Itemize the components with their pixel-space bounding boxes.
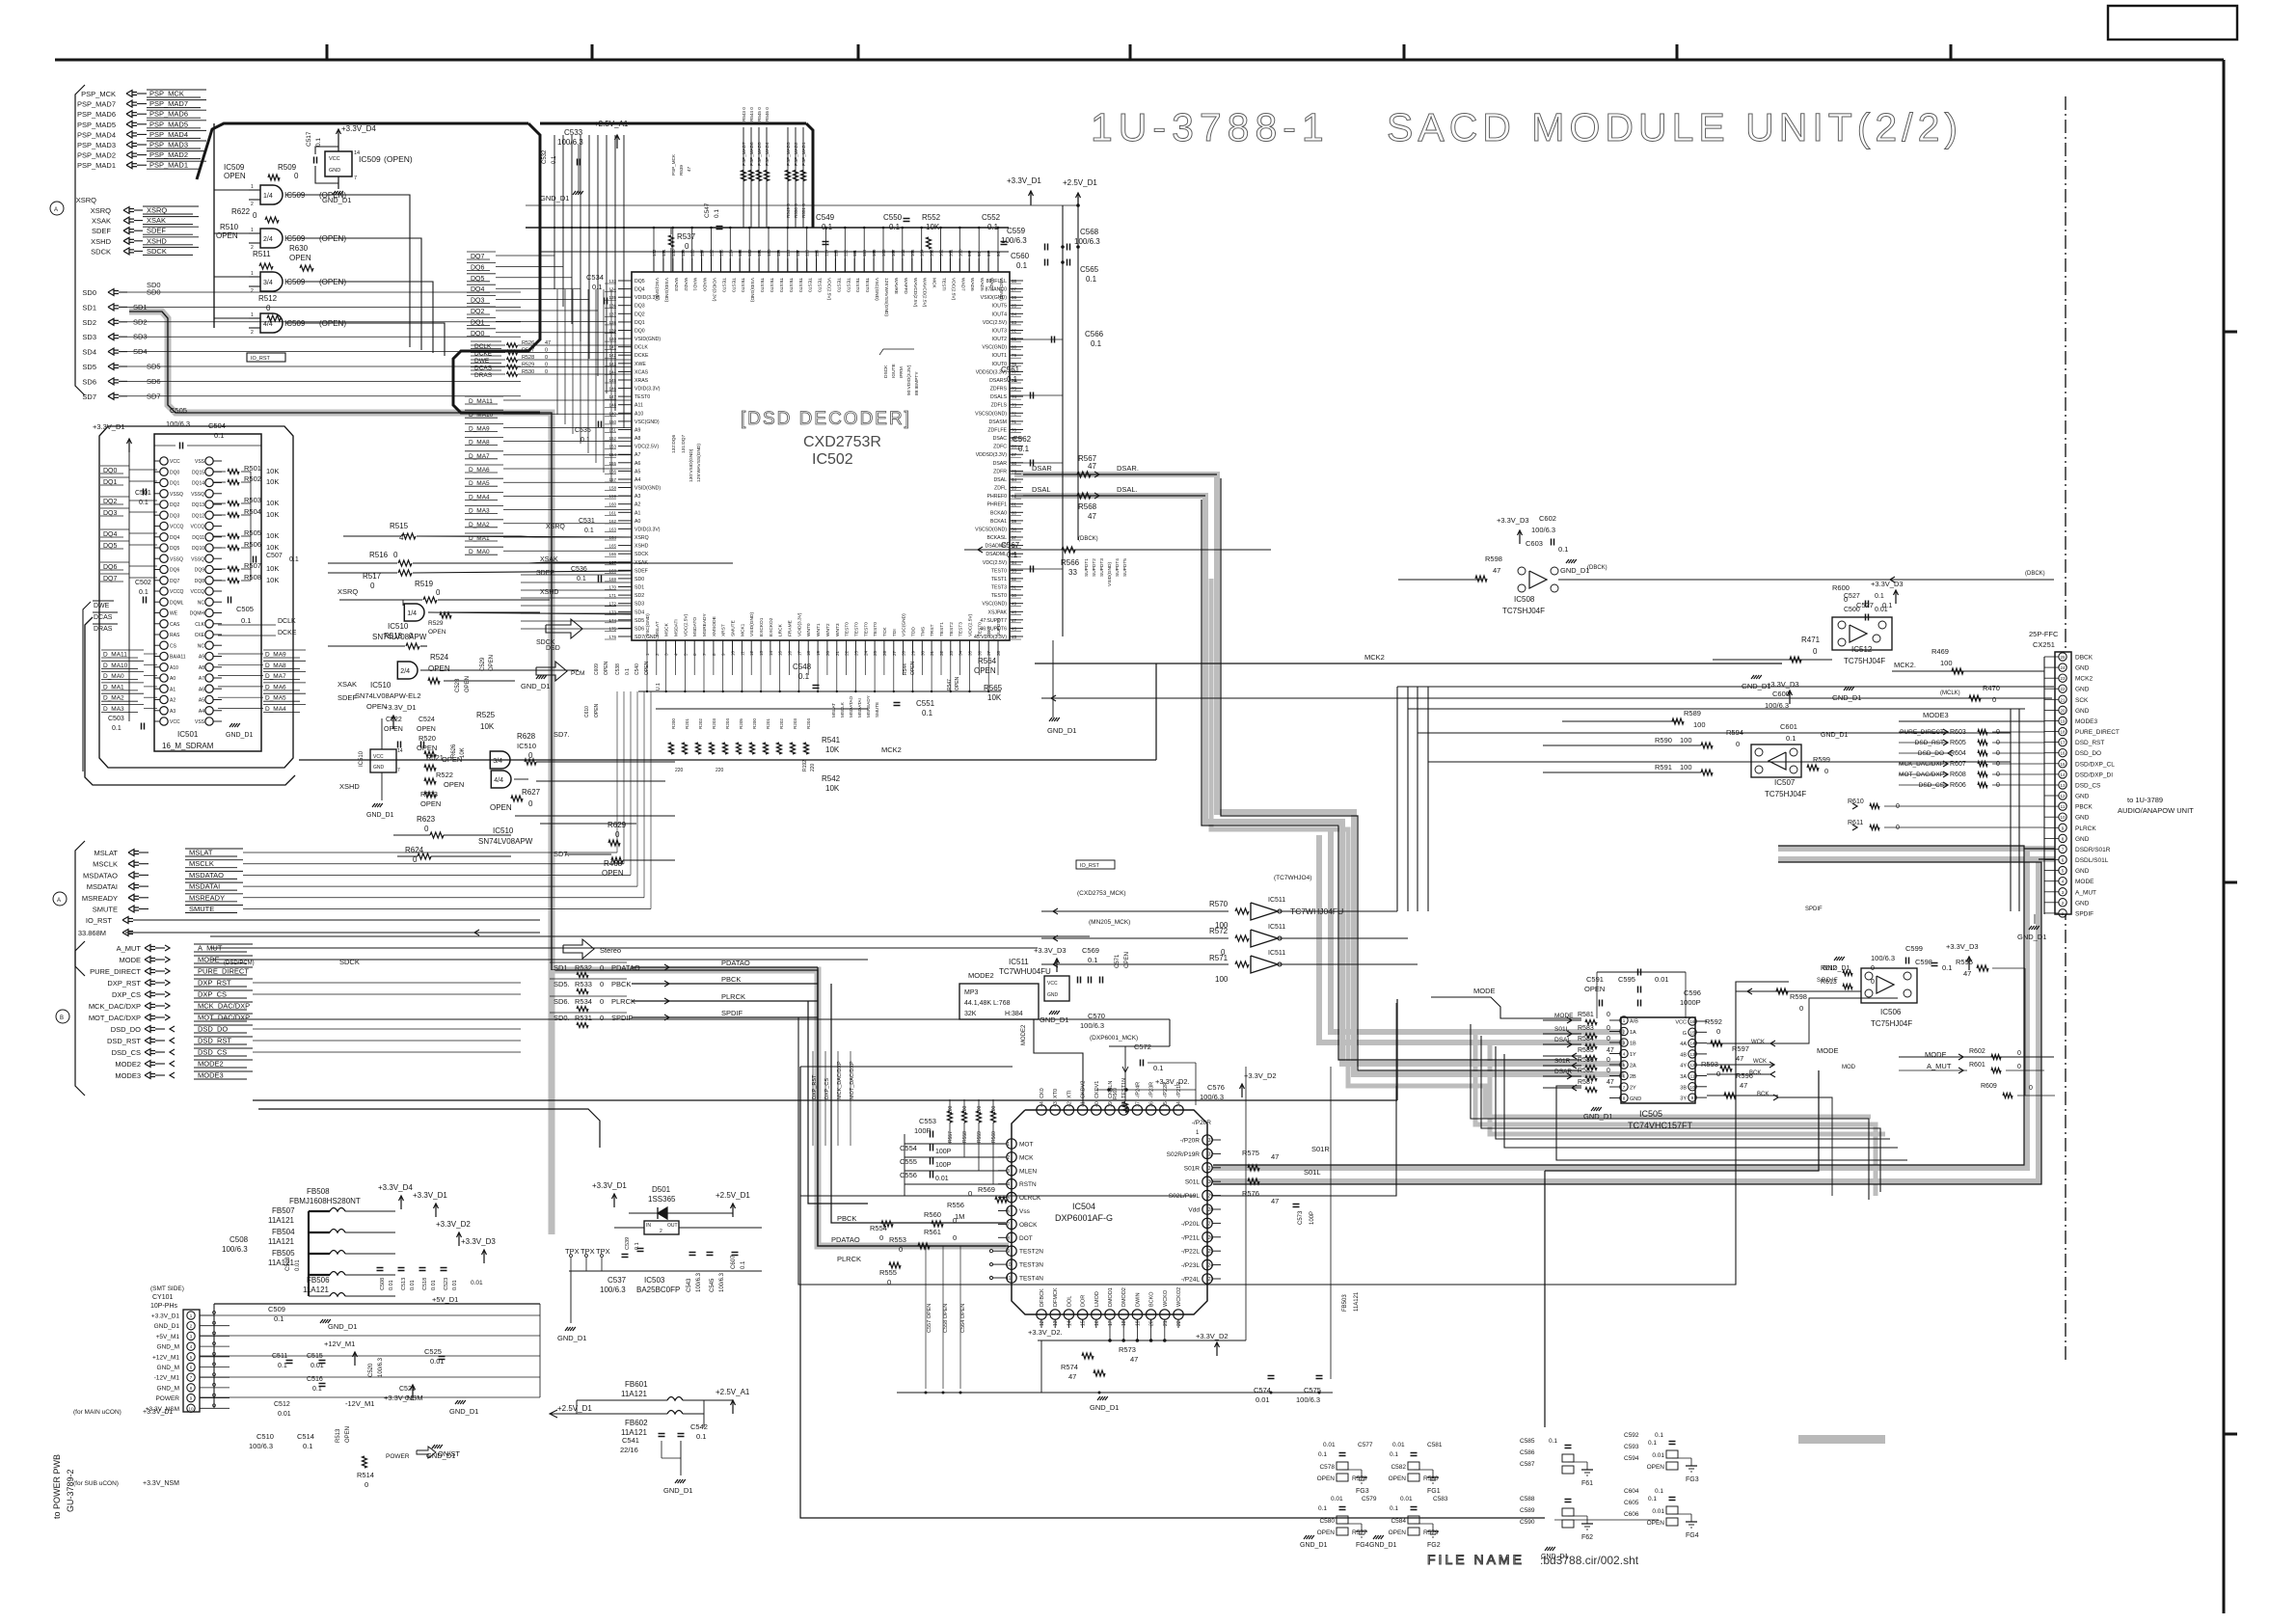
svg-text:0.01: 0.01 xyxy=(452,1280,458,1290)
svg-text:SDCK: SDCK xyxy=(339,958,360,966)
svg-text:(DBCK): (DBCK) xyxy=(2025,571,2045,577)
svg-text:70: 70 xyxy=(1012,428,1017,433)
svg-text:17: 17 xyxy=(797,650,801,656)
svg-text:C571: C571 xyxy=(1115,954,1121,968)
svg-text:DRAS: DRAS xyxy=(94,626,113,633)
svg-text:VCC: VCC xyxy=(1047,981,1058,987)
svg-text:0: 0 xyxy=(1844,595,1848,604)
svg-text:GND_D1: GND_D1 xyxy=(1583,1112,1612,1121)
svg-text:TEST0: TEST0 xyxy=(853,622,859,636)
svg-text:A5: A5 xyxy=(199,698,204,704)
svg-text:C547: C547 xyxy=(704,203,711,218)
svg-text:R546 0: R546 0 xyxy=(765,107,770,122)
svg-text:R501: R501 xyxy=(244,464,261,473)
svg-text:MSDATAO: MSDATAO xyxy=(83,871,118,880)
svg-text:C604: C604 xyxy=(1624,1488,1639,1495)
svg-text:47: 47 xyxy=(687,166,691,172)
svg-text:GND_D1: GND_D1 xyxy=(1090,1403,1119,1412)
svg-text:100/6.3: 100/6.3 xyxy=(249,1442,273,1450)
svg-text:C559: C559 xyxy=(1007,227,1026,235)
svg-text:DSAR: DSAR xyxy=(1032,464,1052,473)
svg-text:0.1: 0.1 xyxy=(1088,956,1097,964)
svg-text:SDCK: SDCK xyxy=(91,247,111,256)
svg-text:R505: R505 xyxy=(244,528,261,537)
svg-text:0: 0 xyxy=(1871,979,1875,986)
svg-text:MCK: MCK xyxy=(932,278,937,288)
svg-text:+2.5V_D1: +2.5V_D1 xyxy=(557,1404,592,1413)
svg-text:2: 2 xyxy=(1623,1030,1626,1035)
svg-text:DSDL/S01L: DSDL/S01L xyxy=(2075,857,2109,864)
svg-text:R623: R623 xyxy=(417,815,436,824)
svg-text:0: 0 xyxy=(1996,771,2000,778)
svg-text:7: 7 xyxy=(354,176,357,181)
svg-text:+3.3V_D1: +3.3V_D1 xyxy=(93,422,125,431)
svg-text:100: 100 xyxy=(1693,720,1706,729)
svg-text:1SS365: 1SS365 xyxy=(648,1195,676,1204)
svg-text:C594: C594 xyxy=(1624,1455,1639,1462)
svg-text:OPEN: OPEN xyxy=(604,661,609,675)
svg-text:C553: C553 xyxy=(919,1117,936,1125)
svg-text:30: 30 xyxy=(1208,1179,1214,1185)
svg-text:100: 100 xyxy=(991,1105,997,1114)
svg-text:FG3: FG3 xyxy=(1356,1488,1369,1495)
svg-text:C595: C595 xyxy=(1618,975,1635,984)
svg-text:27: 27 xyxy=(892,650,897,656)
svg-text:C588: C588 xyxy=(1520,1496,1535,1502)
svg-text:61: 61 xyxy=(1012,502,1017,507)
svg-text:C505: C505 xyxy=(236,605,254,613)
svg-text:C587: C587 xyxy=(1520,1461,1535,1468)
svg-text:GND_D1: GND_D1 xyxy=(154,1323,180,1330)
svg-text:VDID(3.3V): VDID(3.3V) xyxy=(635,527,661,532)
svg-text:R192: R192 xyxy=(802,760,808,771)
svg-text:DSAL: DSAL xyxy=(993,477,1007,483)
svg-text:0: 0 xyxy=(1736,740,1740,748)
svg-text:3: 3 xyxy=(190,1334,193,1339)
svg-text:0.1: 0.1 xyxy=(1091,339,1102,348)
svg-text:173: 173 xyxy=(608,609,616,614)
svg-text:PBCK: PBCK xyxy=(721,975,741,984)
svg-text:0.01: 0.01 xyxy=(430,1357,445,1366)
svg-text:50: 50 xyxy=(1012,593,1017,598)
svg-text:89:IEMPTY: 89:IEMPTY xyxy=(914,371,920,395)
svg-text:C517: C517 xyxy=(306,131,312,147)
svg-text:38: 38 xyxy=(1121,1101,1127,1107)
svg-text:SUPDT1: SUPDT1 xyxy=(1084,558,1090,577)
svg-text:MSREADY: MSREADY xyxy=(82,894,118,903)
svg-text:47: 47 xyxy=(1130,1355,1138,1364)
svg-text:R568: R568 xyxy=(1078,502,1097,511)
svg-text:R547: R547 xyxy=(947,679,953,690)
svg-text:C569: C569 xyxy=(1082,946,1099,955)
svg-text:0.1: 0.1 xyxy=(1018,445,1030,453)
svg-text:R573: R573 xyxy=(1119,1345,1136,1354)
svg-text:R586: R586 xyxy=(1578,1057,1594,1064)
svg-text:FB601: FB601 xyxy=(625,1380,648,1389)
svg-text:165: 165 xyxy=(608,544,616,549)
svg-text:ZDFLS: ZDFLS xyxy=(991,403,1008,409)
svg-text:MSLAT: MSLAT xyxy=(95,849,119,857)
svg-text:R582: R582 xyxy=(1578,1068,1594,1074)
svg-text:DWIN: DWIN xyxy=(1135,1292,1141,1307)
svg-text:R549 0: R549 0 xyxy=(786,203,791,218)
svg-text:10K: 10K xyxy=(987,693,1002,702)
svg-text:WCK: WCK xyxy=(1751,1040,1765,1045)
svg-text:11A121: 11A121 xyxy=(303,1286,330,1294)
svg-text:2: 2 xyxy=(1007,1155,1010,1161)
svg-text:164: 164 xyxy=(608,535,616,540)
svg-text:MSCLK: MSCLK xyxy=(189,859,214,868)
svg-text:DXP_RST: DXP_RST xyxy=(198,979,231,988)
svg-text:C513: C513 xyxy=(401,1278,407,1290)
svg-text:170: 170 xyxy=(608,585,616,590)
svg-text:0.1: 0.1 xyxy=(289,556,299,563)
svg-text:VDID(3.3V): VDID(3.3V) xyxy=(635,387,661,392)
svg-text:0.1: 0.1 xyxy=(1318,1505,1327,1512)
svg-text:100: 100 xyxy=(958,249,962,257)
svg-text:CS: CS xyxy=(170,644,177,650)
svg-text:41: 41 xyxy=(1081,1101,1087,1107)
svg-text:6: 6 xyxy=(1007,1209,1010,1215)
svg-text:MODE: MODE xyxy=(198,956,220,964)
svg-text:R585: R585 xyxy=(1578,1047,1594,1054)
svg-text:R589: R589 xyxy=(1684,709,1701,717)
svg-text:128:WAVSS(GND): 128:WAVSS(GND) xyxy=(883,278,889,316)
svg-text:MODE3: MODE3 xyxy=(198,1071,224,1080)
svg-text:R572: R572 xyxy=(1209,927,1229,935)
svg-text:+2.5V_D1: +2.5V_D1 xyxy=(1063,178,1097,187)
svg-text:0.1: 0.1 xyxy=(139,589,149,596)
svg-text:0.1: 0.1 xyxy=(987,223,999,231)
svg-text:12: 12 xyxy=(1040,1320,1045,1326)
svg-text:100: 100 xyxy=(962,1105,968,1114)
svg-text:C531: C531 xyxy=(579,518,595,525)
svg-text:PSP_MAD6: PSP_MAD6 xyxy=(149,110,188,119)
svg-text:47: 47 xyxy=(1736,1054,1743,1063)
svg-text:C565: C565 xyxy=(1080,265,1099,274)
svg-text:100: 100 xyxy=(1680,763,1692,771)
svg-text:VCC: VCC xyxy=(170,719,180,725)
svg-text:R532: R532 xyxy=(575,963,592,972)
svg-text:117: 117 xyxy=(796,249,800,257)
svg-text:DSD/DXP_DI: DSD/DXP_DI xyxy=(2075,771,2113,778)
svg-text:PHREF0: PHREF0 xyxy=(987,494,1008,500)
svg-text:TEST3: TEST3 xyxy=(959,622,964,636)
svg-text:+3.3V_D3: +3.3V_D3 xyxy=(1871,580,1904,588)
svg-text:DQ4: DQ4 xyxy=(170,535,180,541)
svg-text:R511: R511 xyxy=(253,250,271,258)
svg-text:0.1: 0.1 xyxy=(714,209,720,218)
svg-text:1: 1 xyxy=(251,312,254,318)
svg-text:10K: 10K xyxy=(825,784,840,793)
svg-text:113: 113 xyxy=(833,249,838,257)
svg-text:FB503: FB503 xyxy=(1342,1294,1348,1312)
svg-text:220: 220 xyxy=(716,768,724,773)
svg-text:FG1: FG1 xyxy=(1427,1488,1441,1495)
svg-text:130: 130 xyxy=(671,249,676,257)
svg-text:0.1: 0.1 xyxy=(1549,1438,1557,1445)
svg-text:PSP_MAD1: PSP_MAD1 xyxy=(149,161,188,170)
svg-text:OPEN: OPEN xyxy=(428,664,450,673)
svg-text:MSDATAO: MSDATAO xyxy=(189,871,224,880)
svg-text:TEST0: TEST0 xyxy=(854,278,860,292)
svg-text:R576: R576 xyxy=(1242,1189,1259,1198)
svg-text:33: 33 xyxy=(949,650,954,656)
svg-text:R202: R202 xyxy=(698,718,703,729)
svg-text:MCK1: MCK1 xyxy=(740,623,745,636)
svg-text:D501: D501 xyxy=(652,1185,671,1194)
svg-text:PHREF1: PHREF1 xyxy=(987,502,1008,508)
svg-text:WAD2: WAD2 xyxy=(683,278,689,291)
svg-text:C552: C552 xyxy=(982,213,1001,222)
svg-text:MCK2.: MCK2. xyxy=(1894,661,1916,669)
svg-text:OPEN: OPEN xyxy=(489,655,495,671)
svg-text:0: 0 xyxy=(2017,1050,2021,1057)
svg-text:14: 14 xyxy=(769,650,773,656)
svg-text:A1: A1 xyxy=(635,510,640,516)
svg-text:GND_D1: GND_D1 xyxy=(540,194,569,203)
svg-text:SD6.: SD6. xyxy=(554,997,570,1006)
svg-text:WAD3: WAD3 xyxy=(673,278,679,291)
svg-text:WCKO: WCKO xyxy=(1163,1289,1169,1307)
svg-text:A4: A4 xyxy=(199,709,204,715)
svg-text:104: 104 xyxy=(920,249,925,257)
svg-text:D_MA1: D_MA1 xyxy=(103,684,124,690)
svg-text:MODE3: MODE3 xyxy=(1923,711,1949,719)
svg-text:+3.3V_D1: +3.3V_D1 xyxy=(384,703,417,712)
svg-text:MSREADY: MSREADY xyxy=(702,612,708,636)
svg-text:VCC: VCC xyxy=(329,156,340,162)
svg-text:TDD: TDD xyxy=(911,627,917,636)
svg-text:C577: C577 xyxy=(1358,1442,1373,1448)
svg-text:-/P20R: -/P20R xyxy=(1192,1120,1212,1126)
svg-text:0: 0 xyxy=(899,1245,903,1254)
svg-text:OPEN: OPEN xyxy=(224,172,246,180)
svg-text:TC75HJ04F: TC75HJ04F xyxy=(1765,790,1806,798)
svg-text:VSID(GND): VSID(GND) xyxy=(749,612,755,636)
svg-text:C554: C554 xyxy=(900,1144,917,1152)
svg-text:DSD_DO: DSD_DO xyxy=(2075,750,2101,757)
svg-text:SDEF: SDEF xyxy=(635,568,648,574)
svg-text:PSP_MCK: PSP_MCK xyxy=(81,90,116,98)
svg-text:GND_D1: GND_D1 xyxy=(1300,1542,1328,1549)
svg-text:29: 29 xyxy=(911,650,916,656)
svg-text:FG3: FG3 xyxy=(1686,1476,1699,1483)
svg-text:0.01: 0.01 xyxy=(1875,607,1888,613)
svg-text:DQ3: DQ3 xyxy=(635,304,645,310)
svg-text:25: 25 xyxy=(873,650,878,656)
svg-text:VDC(2.5V): VDC(2.5V) xyxy=(983,560,1007,566)
svg-text:XSRQ: XSRQ xyxy=(76,196,96,204)
svg-text:TC75HJ04F: TC75HJ04F xyxy=(1871,1019,1912,1028)
svg-text:A9: A9 xyxy=(635,428,640,434)
svg-text:R579: R579 xyxy=(1423,1529,1439,1536)
svg-text:0.01: 0.01 xyxy=(1331,1496,1343,1502)
svg-text:DSD_CS: DSD_CS xyxy=(112,1048,141,1057)
svg-text:R578: R578 xyxy=(1352,1475,1367,1482)
svg-text:XSRQ: XSRQ xyxy=(91,206,111,215)
svg-text:PURE_DIRECT: PURE_DIRECT xyxy=(1900,729,1944,736)
svg-text:(for MAIN uCON): (for MAIN uCON) xyxy=(73,1409,122,1416)
svg-text:VSC(GND): VSC(GND) xyxy=(902,613,907,636)
svg-text:100/6.3: 100/6.3 xyxy=(1080,1021,1104,1030)
svg-text:OPEN: OPEN xyxy=(1317,1529,1336,1536)
svg-text:0: 0 xyxy=(2017,1064,2021,1070)
svg-text:102: 102 xyxy=(939,249,944,257)
svg-text:18: 18 xyxy=(1121,1320,1127,1326)
svg-text:OPEN: OPEN xyxy=(428,629,446,636)
svg-text:FBMJ1608HS280NT: FBMJ1608HS280NT xyxy=(289,1197,361,1205)
svg-text:0: 0 xyxy=(528,799,533,808)
svg-text:IC509: IC509 xyxy=(224,163,245,172)
svg-text:C542: C542 xyxy=(690,1422,708,1431)
svg-text:FILE NAME: FILE NAME xyxy=(1427,1552,1525,1567)
svg-text:XSRQ: XSRQ xyxy=(338,587,358,596)
svg-text:D_MA10: D_MA10 xyxy=(103,663,128,669)
svg-text:C500: C500 xyxy=(1844,607,1860,613)
svg-text:IC511: IC511 xyxy=(1268,950,1285,957)
svg-text:-/P22L: -/P22L xyxy=(1181,1249,1201,1256)
svg-text:VSC(GND): VSC(GND) xyxy=(982,345,1007,351)
svg-text:14: 14 xyxy=(397,748,403,754)
svg-text:SD5: SD5 xyxy=(635,618,644,624)
svg-text:D_MA5: D_MA5 xyxy=(265,695,286,702)
svg-text:47: 47 xyxy=(1271,1197,1279,1205)
svg-text:VCC: VCC xyxy=(1675,1020,1687,1026)
svg-text:75: 75 xyxy=(1012,387,1017,392)
svg-text:WAD6: WAD6 xyxy=(969,278,975,291)
svg-text:DSAR: DSAR xyxy=(993,461,1008,467)
svg-text:0.01: 0.01 xyxy=(1323,1442,1336,1448)
svg-text:0: 0 xyxy=(953,1233,957,1242)
svg-text:+3.3V_D3: +3.3V_D3 xyxy=(1767,680,1799,689)
svg-text:83: 83 xyxy=(1012,320,1017,325)
svg-text:C510: C510 xyxy=(257,1432,274,1441)
svg-text:23: 23 xyxy=(1208,1277,1214,1283)
svg-text:OPEN: OPEN xyxy=(417,726,436,733)
svg-text:27: 27 xyxy=(1208,1221,1214,1227)
svg-text:0: 0 xyxy=(1607,1068,1610,1074)
svg-text:DFBCK: DFBCK xyxy=(1040,1288,1045,1307)
svg-text:42: 42 xyxy=(1067,1101,1072,1107)
svg-text:A0: A0 xyxy=(170,676,176,682)
svg-text:176: 176 xyxy=(608,635,616,639)
svg-text:TEST0: TEST0 xyxy=(720,278,726,292)
svg-text:XSAK: XSAK xyxy=(635,560,648,566)
svg-text:100/6.3: 100/6.3 xyxy=(719,1272,725,1292)
svg-text:46:SUPDT6: 46:SUPDT6 xyxy=(980,626,1007,632)
svg-text:0.1: 0.1 xyxy=(1786,734,1796,743)
svg-text:A5: A5 xyxy=(635,469,640,474)
svg-text:19: 19 xyxy=(1135,1320,1141,1326)
svg-text:SN74LV08APW-EL2: SN74LV08APW-EL2 xyxy=(355,691,421,700)
svg-text:0: 0 xyxy=(253,211,257,220)
svg-text:TEST1: TEST1 xyxy=(939,622,945,636)
svg-text:118: 118 xyxy=(786,249,791,257)
svg-text:SD0: SD0 xyxy=(147,281,161,289)
svg-text:C555: C555 xyxy=(900,1157,917,1166)
svg-text:C514: C514 xyxy=(297,1432,314,1441)
svg-text:+3.3V_D3: +3.3V_D3 xyxy=(461,1237,496,1246)
svg-text:0.1: 0.1 xyxy=(889,223,901,231)
svg-text:MLEN: MLEN xyxy=(1019,1168,1037,1175)
svg-text:C500: C500 xyxy=(1840,624,1841,625)
svg-text:DXP_CS: DXP_CS xyxy=(198,990,227,999)
svg-text:122: 122 xyxy=(747,249,752,257)
svg-text:R558: R558 xyxy=(962,1131,968,1143)
svg-text:10K: 10K xyxy=(926,223,940,231)
svg-text:GND_M: GND_M xyxy=(157,1365,179,1371)
svg-text:MODE: MODE xyxy=(1473,987,1496,995)
svg-text:MSREADY: MSREADY xyxy=(866,695,871,717)
svg-text:OPEN: OPEN xyxy=(594,703,600,717)
svg-text:MSDATAI: MSDATAI xyxy=(189,882,220,891)
svg-text:R624: R624 xyxy=(405,846,424,854)
svg-text:13: 13 xyxy=(2060,783,2066,788)
svg-text:R515: R515 xyxy=(390,522,409,530)
svg-text:SD3: SD3 xyxy=(82,333,96,341)
svg-text:MCK_DAC/DXP: MCK_DAC/DXP xyxy=(198,1002,250,1011)
svg-text:1: 1 xyxy=(1623,1018,1626,1023)
svg-text:4: 4 xyxy=(1623,1052,1626,1057)
svg-text:MSDATAI: MSDATAI xyxy=(857,698,862,717)
svg-text:OPEN: OPEN xyxy=(216,231,238,240)
svg-text:0: 0 xyxy=(393,551,398,559)
svg-text:R598: R598 xyxy=(1485,555,1502,563)
svg-text:VDC(2.5V): VDC(2.5V) xyxy=(983,320,1007,326)
svg-text:1: 1 xyxy=(1007,1142,1010,1148)
svg-text:28: 28 xyxy=(902,650,906,656)
svg-text:GND_D1: GND_D1 xyxy=(521,682,550,690)
svg-text:58: 58 xyxy=(1012,527,1017,531)
svg-text:0.01: 0.01 xyxy=(1652,1452,1664,1459)
svg-text:MSREADY: MSREADY xyxy=(189,893,225,902)
svg-text:7: 7 xyxy=(397,768,400,773)
svg-text:R551 0: R551 0 xyxy=(801,203,806,218)
svg-text:MCK_DAC/DXP: MCK_DAC/DXP xyxy=(1899,761,1944,768)
svg-text:DQ15: DQ15 xyxy=(192,470,204,475)
svg-text:SD5.: SD5. xyxy=(554,980,570,988)
svg-text:14: 14 xyxy=(2060,772,2066,777)
svg-text:0: 0 xyxy=(1824,767,1828,775)
svg-text:A10: A10 xyxy=(635,411,643,417)
svg-text:162: 162 xyxy=(608,519,616,524)
svg-text:167: 167 xyxy=(608,560,616,565)
svg-text:+3.3V_D3: +3.3V_D3 xyxy=(1946,942,1979,951)
svg-text:Vss: Vss xyxy=(1019,1208,1031,1215)
svg-text:D_MA4: D_MA4 xyxy=(265,706,286,713)
svg-text:DCKE: DCKE xyxy=(278,630,297,636)
svg-text:100: 100 xyxy=(1940,659,1953,667)
svg-text:DSAL: DSAL xyxy=(1032,485,1051,494)
svg-text:37: 37 xyxy=(1135,1101,1141,1107)
svg-text:DSD_DO: DSD_DO xyxy=(111,1025,141,1034)
svg-text:A9: A9 xyxy=(199,655,204,661)
svg-text:TEST0: TEST0 xyxy=(759,278,765,292)
svg-text:DSD_CS: DSD_CS xyxy=(2075,783,2101,790)
svg-text:1Y: 1Y xyxy=(1630,1052,1636,1058)
svg-text:100/6.3: 100/6.3 xyxy=(1074,237,1100,246)
svg-text:R602: R602 xyxy=(1969,1048,1985,1055)
svg-text:0: 0 xyxy=(1896,803,1900,810)
svg-text:XCAS: XCAS xyxy=(635,369,649,375)
svg-text:R583: R583 xyxy=(1578,1025,1594,1032)
svg-text:+3.3V_D1: +3.3V_D1 xyxy=(1007,176,1041,185)
svg-text:C572: C572 xyxy=(1134,1042,1151,1051)
svg-text:4A: 4A xyxy=(1680,1042,1687,1047)
svg-text:A_MUT: A_MUT xyxy=(198,944,223,953)
svg-text:10K: 10K xyxy=(266,576,279,584)
